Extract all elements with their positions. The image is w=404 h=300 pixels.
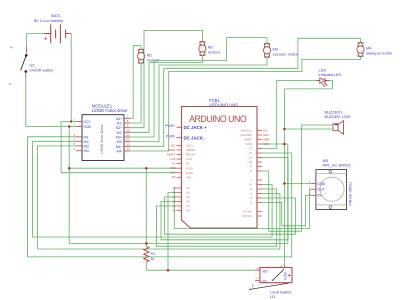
svg-text:PWR-: PWR- [166,134,176,138]
svg-text:2: 2 [10,46,14,48]
svg-text:(A5)SCL: (A5)SCL [240,129,252,133]
svg-text:M3+: M3+ [116,136,123,140]
wire module M4- to motor M4 bottom [130,56,361,151]
wire module M2+ to motor M2 top [130,30,202,127]
limit switch pin C [283,264,285,267]
switch U1 limit switch [249,268,292,300]
svg-text:13: 13 [249,147,253,151]
svg-text:GND: GND [84,125,92,129]
motor M3 vacuum motor [263,43,298,57]
svg-text:On/Off switch: On/Off switch [30,68,54,73]
arduino right pin ~5 [257,188,262,190]
wire module IN3 via bus to arduino pin 4 [38,146,280,249]
svg-text:11: 11 [127,133,130,137]
junction R1 / GND bus [145,242,148,245]
arduino right pin ~3 [257,197,262,199]
wire module VCC to arduino second GND [61,122,176,173]
wire module GND down to GND bus [69,127,288,244]
svg-text:IN4: IN4 [84,149,89,153]
arduino right pin 13 [257,148,262,150]
arduino left pin N/C [177,144,182,146]
resistor R1 1k [144,247,155,262]
svg-text:sweeper motor: sweeper motor [366,51,393,56]
junction R1 top [145,167,148,170]
PIR pin 1 GND [312,183,316,185]
wire module M2- to motor M2 bottom [130,55,202,132]
buzzer BUZZER1 BUZZER-12X9 [325,109,351,134]
wire battery minus to switch [27,33,45,35]
wire arduino A4 via bus to arduino pin 5 [157,189,277,246]
module pin 13 M4+ [124,145,130,147]
svg-text:vacuum motor: vacuum motor [273,52,299,57]
svg-text:DC JACK +: DC JACK + [184,125,208,130]
svg-text:5V: 5V [186,162,190,166]
wire module M3+ to motor M3 top [130,38,267,137]
svg-text:RESET: RESET [167,152,176,156]
svg-text:L293D motor driver: L293D motor driver [92,108,128,113]
arduino right pin ~9 [257,166,262,168]
arduino right pin 1(TX0) [257,211,262,213]
svg-text:M2-: M2- [117,131,123,135]
wire module M1+ to motor M1 top [130,46,141,119]
module pin 1 VCC [76,121,82,123]
svg-text:12: 12 [127,138,131,142]
battery BAT1 [34,13,71,44]
svg-text:(A4)SDA: (A4)SDA [240,133,252,137]
arduino right pin GND [257,143,262,145]
arduino left pin GND [177,167,182,169]
arduino left pin 5V [177,163,182,165]
svg-text:R1: R1 [151,252,156,256]
wire buzzer plus via bus to arduino pin 8 [262,125,333,231]
wire R1 bottom to limit switch NO [146,262,255,270]
module pin 12 M3- [124,141,130,143]
wire arduino A3 via bus to arduino pin 11 [161,158,288,240]
svg-text:IN3: IN3 [84,144,89,148]
wire R1 top to GND line [145,168,147,246]
arduino right pin 2 [257,202,262,204]
svg-text:5V: 5V [172,162,175,166]
board PCB1 ARDUINO UNO [182,98,258,228]
junction battery+/VCC [70,120,73,123]
svg-text:M3-: M3- [117,140,123,144]
svg-text:IN2: IN2 [84,140,89,144]
switch U2 On/Off [8,46,53,85]
junction GND rail / arduino GND [68,167,71,170]
limit switch pin NC [255,280,260,282]
module pin 2 GND [76,126,82,128]
svg-text:motor0: motor0 [147,57,160,62]
svg-text:1(TX0): 1(TX0) [243,210,252,214]
svg-text:A0: A0 [186,186,190,190]
arduino left pin GND [177,172,182,174]
arduino left pin A5 [177,210,182,212]
module pin 10 M2- [124,131,130,133]
module pin 8 M1- [124,122,130,124]
svg-text:AREF: AREF [263,137,270,141]
wire switch to module GND [26,77,76,127]
sensor M3 PIR HC-SR501 [316,158,352,209]
wire PIR OUT to arduino A0 [174,188,311,229]
svg-text:COM: COM [284,272,288,280]
wire PIR 5V to arduino pin 2 [262,195,312,226]
arduino right pin (A5)SCL [257,130,262,132]
module pin 11 M3+ [124,136,130,138]
svg-text:A4: A4 [186,204,190,208]
arduino right pin 8 [257,170,262,172]
svg-text:SCL: SCL [263,128,269,132]
svg-text:L293D Motor Driver: L293D Motor Driver [100,123,104,153]
svg-text:GND: GND [186,171,194,175]
wire module M1- to motor M1 bottom [130,63,141,123]
arduino left pin A4 [177,205,182,207]
svg-text:12: 12 [249,151,253,155]
arduino left pin A2 [177,196,182,198]
wire arduino A2 via bus to arduino pin 3 [165,197,296,234]
svg-text:N/C: N/C [171,143,176,147]
arduino right pin AREF [257,139,262,141]
svg-text:M4-: M4- [117,150,123,154]
svg-text:SDA: SDA [263,133,269,137]
svg-text:14: 14 [127,147,131,151]
svg-text:~5: ~5 [249,187,253,191]
svg-text:A5: A5 [186,209,190,213]
PIR pin 3 5V [312,194,316,196]
svg-text:GND: GND [317,182,325,186]
svg-text:A1: A1 [186,191,190,195]
svg-text:indicatorLED: indicatorLED [319,72,342,77]
arduino left pin A0 [177,187,182,189]
svg-text:BUZZER-12X9: BUZZER-12X9 [325,114,351,119]
wire arduino A1 to limit switch line [168,193,177,271]
svg-text:1: 1 [8,83,12,85]
svg-text:GND: GND [245,142,253,146]
svg-text:PIR_HC-SR501: PIR_HC-SR501 [323,163,352,168]
PIR pin 2 OUT [312,188,316,190]
motor M2 motor1 [199,42,221,56]
svg-text:5V: 5V [317,194,322,198]
svg-text:ARDUINO UNO: ARDUINO UNO [189,114,247,124]
arduino left pin VIN [177,176,182,178]
wire module IN1 via bus to arduino pin 12 [28,137,292,257]
arduino right pin (A4)SDA [257,134,262,136]
svg-text:VIN: VIN [186,175,191,179]
svg-text:3.3V: 3.3V [170,157,176,161]
arduino right pin 0(RX0) [257,215,262,217]
module pin 7 M1+ [124,117,130,119]
svg-text:NO: NO [262,269,268,273]
svg-text:AREF: AREF [244,138,252,142]
junction switch/GND [68,125,71,128]
junction buzzer minus [283,128,286,131]
arduino pin DC JACK - [177,137,182,139]
arduino right pin ~10 [257,161,262,163]
arduino left pin 3.3V [177,158,182,160]
svg-text:0(RX0): 0(RX0) [242,214,252,218]
wire LED cathode to GND rail [284,81,332,265]
svg-text:DC JACK -: DC JACK - [184,135,207,140]
svg-text:VCC: VCC [84,120,92,124]
arduino pin DC JACK + [177,126,182,128]
svg-text:U1: U1 [270,294,276,299]
wire module M3- to motor M3 bottom [130,57,267,141]
svg-text:13: 13 [127,142,131,146]
svg-text:M2+: M2+ [116,126,123,130]
svg-text:~3: ~3 [249,196,253,200]
svg-text:3.3V: 3.3V [186,157,192,161]
svg-text:~9: ~9 [249,165,253,169]
arduino left pin A1 [177,192,182,194]
svg-text:~11: ~11 [247,156,252,160]
motor M1 motor0 [138,49,160,63]
limit switch pin NO [255,269,260,271]
svg-text:M1-: M1- [117,122,123,126]
module pin 6 IN4 [76,150,82,152]
junction A1 / limit line [167,269,170,272]
module pin 5 IN3 [76,145,82,147]
svg-text:OUT: OUT [317,188,325,192]
module pin 14 M4- [124,150,130,152]
svg-text:RESET: RESET [186,153,196,157]
module pin 9 M2+ [124,127,130,129]
wire battery plus to module VCC [70,34,72,122]
wire module IN2 via bus to arduino pin 6 [33,141,273,237]
arduino left pin IOREF [177,149,182,151]
svg-text:A2: A2 [186,195,190,199]
arduino left pin A3 [177,201,182,203]
svg-text:~6: ~6 [249,183,253,187]
wire LED anode to arduino pin 13 [262,81,317,149]
svg-text:M4+: M4+ [116,145,123,149]
svg-text:motor1: motor1 [208,50,221,55]
wire GND rail to arduino GND left [69,167,176,169]
wire PIR GND to GND rail [284,183,311,185]
svg-text:GND: GND [186,166,194,170]
junction arduino GND right [283,143,286,146]
svg-text:NC: NC [262,280,268,284]
arduino right pin ~11 [257,157,262,159]
svg-text:IN1: IN1 [84,135,89,139]
svg-text:IOREF: IOREF [186,148,195,152]
LED indicatorLED [317,67,342,86]
svg-text:~10: ~10 [247,160,252,164]
module pin 4 IN2 [76,140,82,142]
wire buzzer minus to GND rail [284,128,333,130]
arduino left pin RESET [177,154,182,156]
arduino right pin 12 [257,152,262,154]
svg-text:M1+: M1+ [116,117,123,121]
svg-text:VIN: VIN [171,175,175,179]
svg-text:1k: 1k [151,257,155,261]
svg-text:PIR HC-SR501: PIR HC-SR501 [348,182,352,206]
motor M4 sweeper motor [357,43,393,57]
arduino right pin 4 [257,193,262,195]
svg-text:PWR+: PWR+ [165,124,175,128]
arduino right pin 7 [257,179,262,181]
module MODULE1 L293D motor driver [82,104,128,161]
arduino right pin ~6 [257,184,262,186]
svg-text:(N/C): (N/C) [186,144,193,148]
svg-text:8V Li-Ion battery: 8V Li-Ion battery [34,18,63,23]
junction PIR GND [283,182,286,185]
wire module M4+ to motor M4 top [130,38,361,146]
module pin 3 IN1 [76,136,82,138]
svg-text:A3: A3 [186,200,190,204]
svg-text:10: 10 [127,128,131,132]
